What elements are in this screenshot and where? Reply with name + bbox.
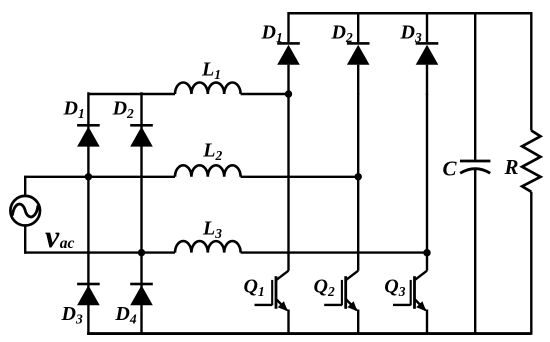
svg-text:R: R xyxy=(504,155,519,179)
svg-text:C: C xyxy=(443,156,458,180)
